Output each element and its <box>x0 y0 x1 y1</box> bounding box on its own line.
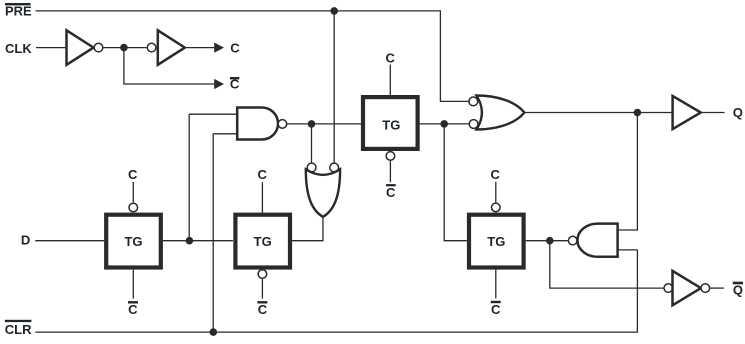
bubble U6 output <box>568 236 577 245</box>
inverter U8 Q-bar <box>673 271 701 305</box>
wire C to TG2 <box>261 182 263 213</box>
TG4 box <box>469 215 524 268</box>
svg-text:C: C <box>491 167 501 182</box>
wire U6 bottom input stub <box>618 249 638 251</box>
bubble U8 input <box>664 284 673 293</box>
wire U2 output to C arrow <box>185 47 215 49</box>
bubble U1 output <box>94 43 103 52</box>
wire D to TG1 <box>35 240 104 242</box>
svg-text:TG: TG <box>382 117 400 132</box>
label C-bar of TG2 overline <box>257 301 267 303</box>
bubble TG3 C-bar <box>386 152 395 161</box>
wire U5 output to Q buffer <box>524 112 672 114</box>
wire CLK to U1 <box>36 47 67 49</box>
wire U3 bottom input to CLR <box>212 134 214 332</box>
wire TG4 C-bar stub <box>495 270 497 299</box>
svg-text:C: C <box>386 50 396 65</box>
bubble TG1 C input <box>129 203 138 212</box>
wire C to TG3 <box>389 65 391 95</box>
net PRE overline <box>5 3 31 5</box>
wire TG3 C-bar stub <box>389 161 391 182</box>
bubble TG2 C-bar <box>258 270 267 279</box>
svg-text:D: D <box>21 233 30 248</box>
wire U3 output to NOR U4 left input <box>311 124 313 163</box>
wire NAND U3 top input <box>189 113 237 115</box>
wire U4 output to TG2 <box>292 217 323 241</box>
svg-text:CLR: CLR <box>5 322 32 337</box>
wire Q node to NAND U6 top input <box>618 113 638 231</box>
TG2 box <box>235 215 290 268</box>
label C-bar of TG1 overline <box>128 301 138 303</box>
bubble TG4 C input <box>492 203 501 212</box>
wire TG3 node down to TG4 <box>444 124 467 241</box>
wire CPI node to C-bar arrow <box>124 48 215 84</box>
svg-text:C: C <box>230 76 240 91</box>
TG1 box <box>106 215 161 268</box>
junction PRE node <box>330 7 338 15</box>
wire TG4 node to Q-bar inverter <box>550 241 664 288</box>
wire TG3 output <box>420 123 470 125</box>
svg-text:CLK: CLK <box>5 41 32 56</box>
svg-text:Q: Q <box>733 282 743 297</box>
wire TG2 C-bar stub <box>261 279 263 299</box>
bubble U5 top input <box>469 97 478 106</box>
wire U3 top input to node A <box>188 114 190 241</box>
junction CLR node <box>210 328 218 336</box>
inverter U1 <box>67 30 94 65</box>
junction node CPI <box>120 44 128 52</box>
wire TG4 output to NAND U6 <box>526 240 569 242</box>
svg-text:TG: TG <box>254 234 272 249</box>
svg-text:TG: TG <box>124 234 142 249</box>
wire U8 to Q-bar <box>710 287 724 289</box>
svg-text:C: C <box>386 185 396 200</box>
bubble U2 input <box>147 43 156 52</box>
wire C to TG4 <box>495 182 497 203</box>
bubble U4 right input <box>330 163 339 172</box>
inverter U7 Q buffer <box>673 96 701 129</box>
wire TG1 to TG2 node A <box>163 240 233 242</box>
junction TG3 output node <box>440 120 448 128</box>
svg-text:TG: TG <box>487 234 505 249</box>
arrowhead C <box>214 43 224 53</box>
svg-text:C: C <box>258 302 268 317</box>
junction Q internal node <box>634 109 642 117</box>
inverter U2 <box>158 30 185 65</box>
wire NAND U3 bottom input <box>213 133 237 135</box>
arrowhead C-bar <box>214 79 224 89</box>
wire CLR bus <box>35 250 637 332</box>
bubble U8 output <box>701 284 710 293</box>
svg-text:C: C <box>230 40 240 55</box>
svg-text:Q: Q <box>733 105 743 120</box>
bubble U4 left input <box>307 163 316 172</box>
nor U5 <box>476 96 524 130</box>
net CLR overline <box>5 320 32 322</box>
nor U4 pointing down <box>306 169 340 217</box>
svg-text:C: C <box>128 302 138 317</box>
wire TG1 C-bar stub <box>132 270 134 299</box>
svg-text:C: C <box>491 302 501 317</box>
label C-bar of TG3 overline <box>386 184 396 186</box>
wire U3 output to TG3 <box>287 123 361 125</box>
wire U1 to U2 <box>103 47 147 49</box>
bubble U5 bottom input <box>469 120 478 129</box>
junction TG4 output node <box>546 237 554 245</box>
wire PRE bus <box>36 11 470 102</box>
svg-text:C: C <box>258 167 268 182</box>
TG3 box <box>363 97 418 149</box>
nand U3 <box>237 108 278 140</box>
label C-bar of TG4 overline <box>491 301 501 303</box>
net Q-bar overline <box>733 282 743 285</box>
wire C to TG1 <box>132 182 134 202</box>
wire U7 to Q <box>701 112 725 114</box>
wire PRE to NOR U4 right input <box>333 11 335 163</box>
svg-text:PRE: PRE <box>5 4 32 19</box>
junction node A <box>186 237 194 245</box>
svg-text:C: C <box>128 167 138 182</box>
nand U6 pointing left <box>577 224 617 257</box>
bubble U3 output <box>278 120 287 129</box>
junction U3 output node <box>308 120 316 128</box>
label C-bar overline <box>230 77 239 79</box>
